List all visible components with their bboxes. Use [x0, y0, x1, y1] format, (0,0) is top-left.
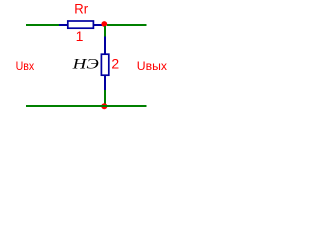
wire bottom rail	[26, 105, 147, 107]
wire vertical to bottom junction	[104, 90, 106, 104]
resistor Rr body	[68, 21, 94, 28]
junction node bottom	[101, 103, 107, 109]
junction node top	[101, 21, 107, 27]
wire top-right output	[107, 24, 147, 26]
resistor Rr lead right	[94, 24, 103, 26]
nonlinear element НЭ lead top	[104, 37, 106, 55]
nonlinear element НЭ body	[101, 54, 108, 75]
svg-text:Rr: Rr	[74, 1, 88, 17]
resistor Rr lead left	[59, 24, 68, 26]
wire top-left input	[26, 24, 59, 26]
svg-text:Uвых: Uвых	[137, 59, 168, 73]
nonlinear element НЭ lead bottom	[104, 75, 106, 90]
svg-text:Uвх: Uвх	[16, 59, 35, 73]
svg-text:2: 2	[111, 55, 119, 71]
svg-text:1: 1	[76, 28, 84, 44]
svg-text:НЭ: НЭ	[71, 57, 99, 73]
wire vertical from top junction	[104, 26, 106, 37]
